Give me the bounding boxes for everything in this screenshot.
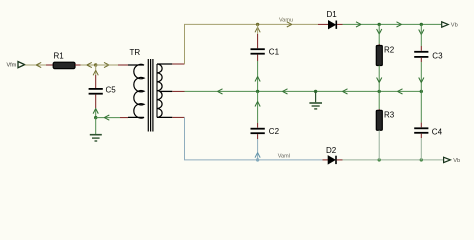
- port Vb (top): [442, 22, 458, 29]
- wire C3 column top: [420, 24, 422, 50]
- svg-text:Vb: Vb: [453, 158, 460, 164]
- diode D2: [326, 146, 343, 164]
- capacitor C3: [414, 52, 443, 61]
- node C2 bottom junction: [256, 158, 259, 161]
- wire R2 column top: [378, 24, 380, 45]
- node mid at C3/C4: [420, 90, 423, 93]
- wire R1 to node A: [75, 62, 96, 67]
- node C3 top junction: [419, 23, 424, 35]
- core: [147, 59, 149, 132]
- wire D2 to Vb port (bottom): [343, 159, 444, 161]
- node R2 top junction: [377, 23, 382, 34]
- transformer TR: [128, 48, 172, 132]
- wire bottom riser + rail (Vaml net): [185, 117, 323, 159]
- wire TR secondary bottom to riser: [172, 116, 184, 118]
- wire top rail into D1: [318, 23, 328, 25]
- node R3 bottom junction: [378, 158, 381, 161]
- diode D1: [327, 10, 343, 29]
- wire R3 bottom to bottom rail: [378, 130, 380, 160]
- port Vfm: [7, 62, 25, 69]
- resistor R1: [53, 52, 75, 69]
- wire node B to transformer primary bottom: [96, 115, 128, 120]
- svg-text:C1: C1: [269, 48, 280, 57]
- port Vb (bottom): [444, 157, 461, 164]
- capacitor C5: [89, 86, 117, 95]
- node mid at ground: [314, 90, 317, 93]
- node top junction at C1: [255, 23, 260, 33]
- svg-text:TR: TR: [130, 48, 141, 57]
- svg-text:R2: R2: [384, 46, 395, 55]
- wire TR center tap to mid rail: [172, 90, 184, 92]
- wire R2 bottom to mid rail: [377, 66, 382, 92]
- svg-text:C5: C5: [106, 86, 117, 95]
- wire C3 bottom to mid rail: [419, 58, 424, 92]
- wire C1 bottom to mid rail: [255, 55, 260, 92]
- wire C2 bottom to bottom rail (Vaml net): [255, 134, 260, 160]
- node A junction (R1/C5/TR primary top): [94, 62, 109, 67]
- svg-text:R1: R1: [54, 52, 65, 61]
- node mid at C1/C2: [256, 90, 259, 93]
- svg-text:Vamu: Vamu: [279, 18, 293, 24]
- capacitor C4: [414, 127, 442, 136]
- capacitor C2: [251, 127, 280, 136]
- resistor R2: [376, 46, 394, 66]
- primary coil: [128, 64, 144, 118]
- svg-text:Vb: Vb: [451, 23, 458, 29]
- wire into D2: [323, 159, 329, 161]
- wire C2 column top (ground net): [255, 91, 260, 127]
- svg-text:Vaml: Vaml: [278, 154, 290, 160]
- svg-text:C3: C3: [432, 52, 443, 61]
- wire R3 column top: [378, 91, 380, 110]
- wire C1 column top: [257, 24, 259, 48]
- secondary coil: [157, 64, 172, 117]
- wire Vfm to R1: [25, 62, 53, 67]
- svg-text:R3: R3: [384, 110, 395, 119]
- ground (under C5): [90, 135, 102, 141]
- wire TR secondary top to riser: [172, 63, 184, 65]
- node B junction (C5 bottom / ground / TR primary bottom): [94, 116, 97, 119]
- svg-text:D1: D1: [327, 10, 338, 19]
- mid rail wire (ground net): [185, 89, 422, 94]
- ground (mid rail): [309, 91, 322, 109]
- wire riser up (Vamu net): [185, 24, 319, 64]
- svg-text:Vfm: Vfm: [7, 63, 17, 69]
- wire C5 to node B: [93, 95, 98, 118]
- wire C4 bottom to bottom rail: [420, 134, 422, 160]
- wire D1 to Vb port (top): [343, 22, 442, 27]
- node mid at R2/R3: [378, 90, 381, 93]
- svg-text:D2: D2: [326, 146, 337, 155]
- svg-text:C4: C4: [432, 127, 443, 136]
- resistor R3: [376, 110, 394, 130]
- capacitor C1: [251, 48, 280, 57]
- wire node A to transformer primary top: [96, 64, 128, 66]
- wire C4 column top: [420, 91, 422, 127]
- wire arrow on top rail: [287, 22, 292, 27]
- wire node B down to ground: [95, 118, 97, 134]
- svg-text:C2: C2: [269, 127, 280, 136]
- node C4 bottom junction: [420, 158, 423, 161]
- wire node A down to C5: [93, 65, 98, 88]
